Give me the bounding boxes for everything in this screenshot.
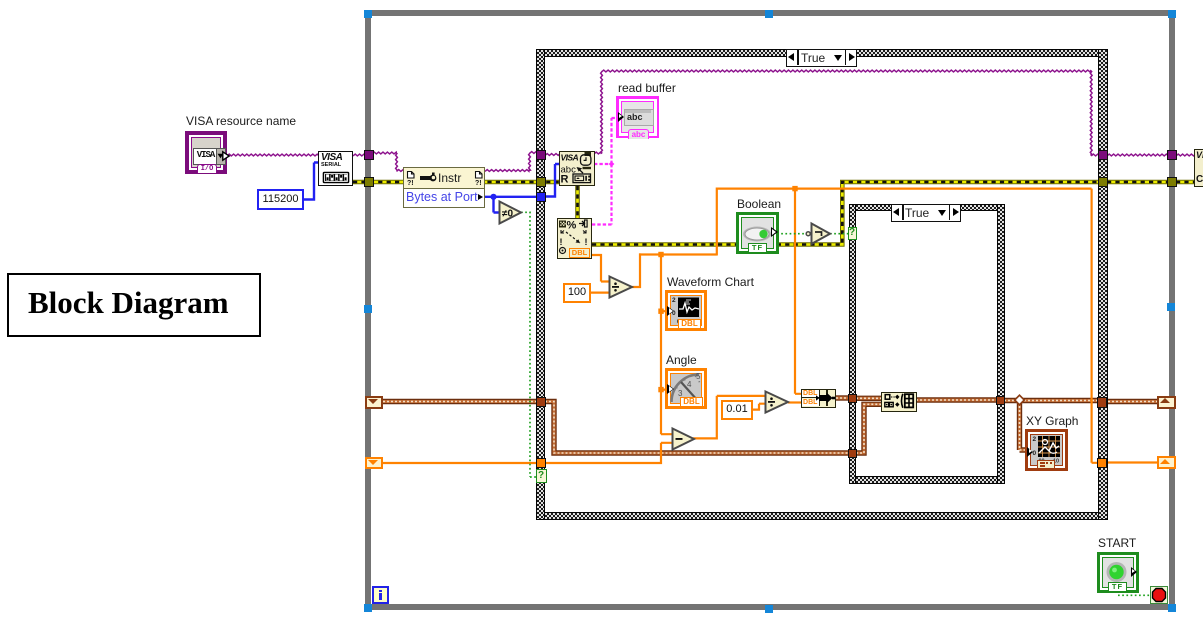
right shift register brown <box>1157 396 1176 409</box>
inner case structure right border <box>997 204 1005 484</box>
subtract node <box>671 427 696 451</box>
wire error cluster: VISA read to scan node <box>575 186 580 219</box>
svg-text:5: 5 <box>696 372 701 381</box>
Waveform Chart icon <box>665 290 707 331</box>
inner case structure bottom border <box>849 476 1005 484</box>
wire bool: START button to loop stop terminal <box>1118 594 1150 596</box>
label VISA resource name <box>186 114 296 128</box>
wire array: index node to inner right tunnel <box>916 397 1000 402</box>
wire error cluster: scan node right, up, along top to case border <box>592 182 1103 245</box>
while loop left border <box>365 10 371 610</box>
svg-text:≠0: ≠0 <box>502 209 513 220</box>
selection handle top-left <box>364 10 372 18</box>
left shift register orange <box>365 457 383 470</box>
wire array: inner top tunnel to index node <box>856 396 882 401</box>
inner case structure left border <box>849 204 856 484</box>
label Waveform Chart <box>667 275 754 289</box>
case tunnel error (left) <box>536 177 546 187</box>
outer case structure right border <box>1098 49 1108 520</box>
svg-text:?!: ?! <box>475 180 482 187</box>
numeric constant 0.01 <box>721 400 753 420</box>
wire DBL: divide1 out up to bus <box>632 253 640 287</box>
case tunnel array brown (left) <box>536 397 546 407</box>
selection handle right-mid <box>1167 303 1175 311</box>
inner case tunnel array bottom-left <box>848 449 857 458</box>
scan from string node <box>557 218 592 259</box>
VISA close icon (clipped at right edge) <box>1194 149 1203 187</box>
case tunnel error (right) <box>1098 177 1108 187</box>
svg-text:4: 4 <box>687 380 692 389</box>
wire int: bytes at port to case tunnel <box>485 196 540 198</box>
divide node 1 <box>608 275 634 299</box>
while loop bottom border <box>365 604 1175 610</box>
wire visa: VISA read up across top and down to case tunnel <box>594 70 1102 156</box>
case selector terminal ? (outer) <box>536 469 547 483</box>
Boolean control icon <box>736 212 779 254</box>
wire int: case tunnel to VISA read byte count <box>545 164 560 197</box>
wire visa: property node to case tunnel <box>485 152 540 172</box>
loop tunnel purple (left) <box>364 150 374 160</box>
wire visa: case tunnel to loop tunnel <box>1107 154 1171 156</box>
VISA read icon <box>559 151 595 186</box>
outer case structure bottom border <box>536 512 1108 520</box>
case tunnel DBL orange (left) <box>536 458 546 468</box>
junction diamond on array wire <box>1015 395 1025 405</box>
wire array: inside case jog down to inner case bottom tunnel <box>545 402 852 454</box>
wire DBL: branch down to chart, gauge, subtract <box>661 255 673 435</box>
wire array: inner bottom tunnel jog up to index node <box>856 404 882 453</box>
index bundle cluster array node <box>881 392 917 412</box>
wire array: left shift register to case tunnel <box>383 399 545 404</box>
case tunnel int32 blue (left) <box>536 192 546 202</box>
svg-text:2: 2 <box>1033 436 1037 443</box>
svg-text:!: ! <box>585 237 588 247</box>
wire bool: neq0 to outer case selector terminal <box>521 212 536 477</box>
outer case structure top border <box>536 49 1108 57</box>
NOT gate <box>804 222 832 245</box>
inner case tunnel array right <box>996 396 1005 405</box>
loop tunnel purple (right) <box>1167 150 1177 160</box>
numeric constant 115200 <box>257 189 304 210</box>
loop tunnel error (left) <box>364 177 374 187</box>
wire DBL: drop to orange case tunnel <box>1092 189 1100 463</box>
read buffer indicator icon <box>616 96 659 138</box>
outer case selector label True <box>786 49 857 67</box>
inner case selector label True <box>891 204 961 222</box>
outer case structure left border <box>536 49 545 520</box>
wire bool: Boolean control to NOT gate <box>777 233 806 235</box>
wire visa: control to VISA serial <box>227 154 319 156</box>
case tunnel array brown (right) <box>1097 397 1108 408</box>
inner case tunnel array top-left <box>848 394 857 403</box>
right shift register orange <box>1157 456 1176 469</box>
svg-text:0: 0 <box>1033 450 1037 457</box>
wire array: case tunnel to right shift register <box>1100 399 1160 404</box>
svg-text:!: ! <box>560 237 563 247</box>
divide node 2 <box>764 390 790 414</box>
case tunnel purple (right) <box>1098 150 1108 160</box>
wire DBL: case tunnel to subtract bottom input <box>545 443 673 463</box>
loop tunnel error (right) <box>1167 177 1177 187</box>
selection handle bottom-mid <box>765 605 773 613</box>
not-equal-to-0 node <box>498 200 523 225</box>
wire error cluster: case border to loop border <box>1107 180 1172 185</box>
wire error cluster: VISA serial to case via loop tunnel <box>353 180 560 185</box>
label Angle <box>666 353 697 367</box>
wire DBL: scan DBL out to divide1 top input <box>592 255 610 282</box>
selection handle bottom-left <box>364 604 372 612</box>
numeric constant 100 <box>563 283 591 303</box>
selection handle top-mid <box>765 10 773 18</box>
selection handle left-mid <box>364 305 372 313</box>
wire int: constant 115200 to VISA serial <box>304 163 319 200</box>
wire DBL: branch down to bundle row1 <box>795 189 802 394</box>
selection handle bottom-right <box>1168 604 1176 612</box>
START button icon <box>1097 552 1139 593</box>
wire array: branch down to XY graph <box>1020 402 1030 450</box>
junction dots on DBL wires <box>658 186 797 392</box>
case tunnel purple (left) <box>536 150 546 160</box>
wire DBL: orange case tunnel to right shift register <box>1105 461 1160 463</box>
wire DBL: divide2 out to bundle row2 <box>788 401 802 403</box>
label XY Graph <box>1026 414 1078 428</box>
while loop right border <box>1169 10 1175 610</box>
label START <box>1098 536 1136 550</box>
selection handle top-right <box>1168 10 1176 18</box>
wire DBL: bus riser to y188.6 run <box>716 189 1092 256</box>
wire visa: loop tunnel to property node <box>372 152 404 171</box>
wire DBL: subtract out to divide2 top input <box>693 396 766 439</box>
bundle node DBL DBL <box>801 389 836 408</box>
label Boolean <box>737 197 781 211</box>
case tunnel DBL orange (right) <box>1097 458 1108 468</box>
svg-text:?!: ?! <box>407 180 414 187</box>
wire visa: case tunnel to VISA read <box>545 154 560 156</box>
wire DBL: constant 0.01 to divide2 <box>753 404 766 410</box>
wire array: bundle output to inner case top tunnel <box>836 395 852 400</box>
inner case structure top border <box>849 204 1005 211</box>
while loop top border <box>365 10 1175 16</box>
svg-text:VISA: VISA <box>561 153 579 163</box>
loop stop condition terminal <box>1150 586 1168 604</box>
svg-text:R: R <box>561 174 569 186</box>
wire DBL: bus run y254.5 <box>639 253 717 255</box>
wire int: branch down to neq0 node <box>494 197 501 213</box>
svg-text:2: 2 <box>672 297 676 304</box>
VISA resource name control icon <box>185 131 227 174</box>
loop iteration terminal i <box>372 586 389 604</box>
wire visa: loop tunnel to VISA close <box>1176 154 1196 156</box>
wire bool: NOT gate to inner case selector terminal <box>830 233 848 235</box>
Block Diagram title box <box>7 273 261 337</box>
VISA configure serial port icon <box>318 151 353 186</box>
wire string: VISA read to read buffer and scan node <box>592 118 617 225</box>
wire visa: VISA serial to loop tunnel <box>353 154 368 156</box>
wire DBL: constant 100 to divide1 <box>591 292 610 294</box>
left shift register brown <box>365 396 383 409</box>
wire array: inner tunnel via diamond to case tunnel <box>1004 398 1100 403</box>
Angle gauge indicator icon <box>665 368 707 409</box>
wire DBL: left shift register to case tunnel <box>383 462 540 464</box>
junction diamond on string wire <box>609 161 615 167</box>
svg-text:%: % <box>567 220 577 232</box>
label read buffer <box>618 81 676 95</box>
wire error cluster: loop border to VISA close <box>1176 180 1196 185</box>
property node Instr / Bytes at Port <box>403 167 485 208</box>
inner case selector terminal ? <box>848 227 857 241</box>
XY Graph indicator icon <box>1025 429 1068 471</box>
